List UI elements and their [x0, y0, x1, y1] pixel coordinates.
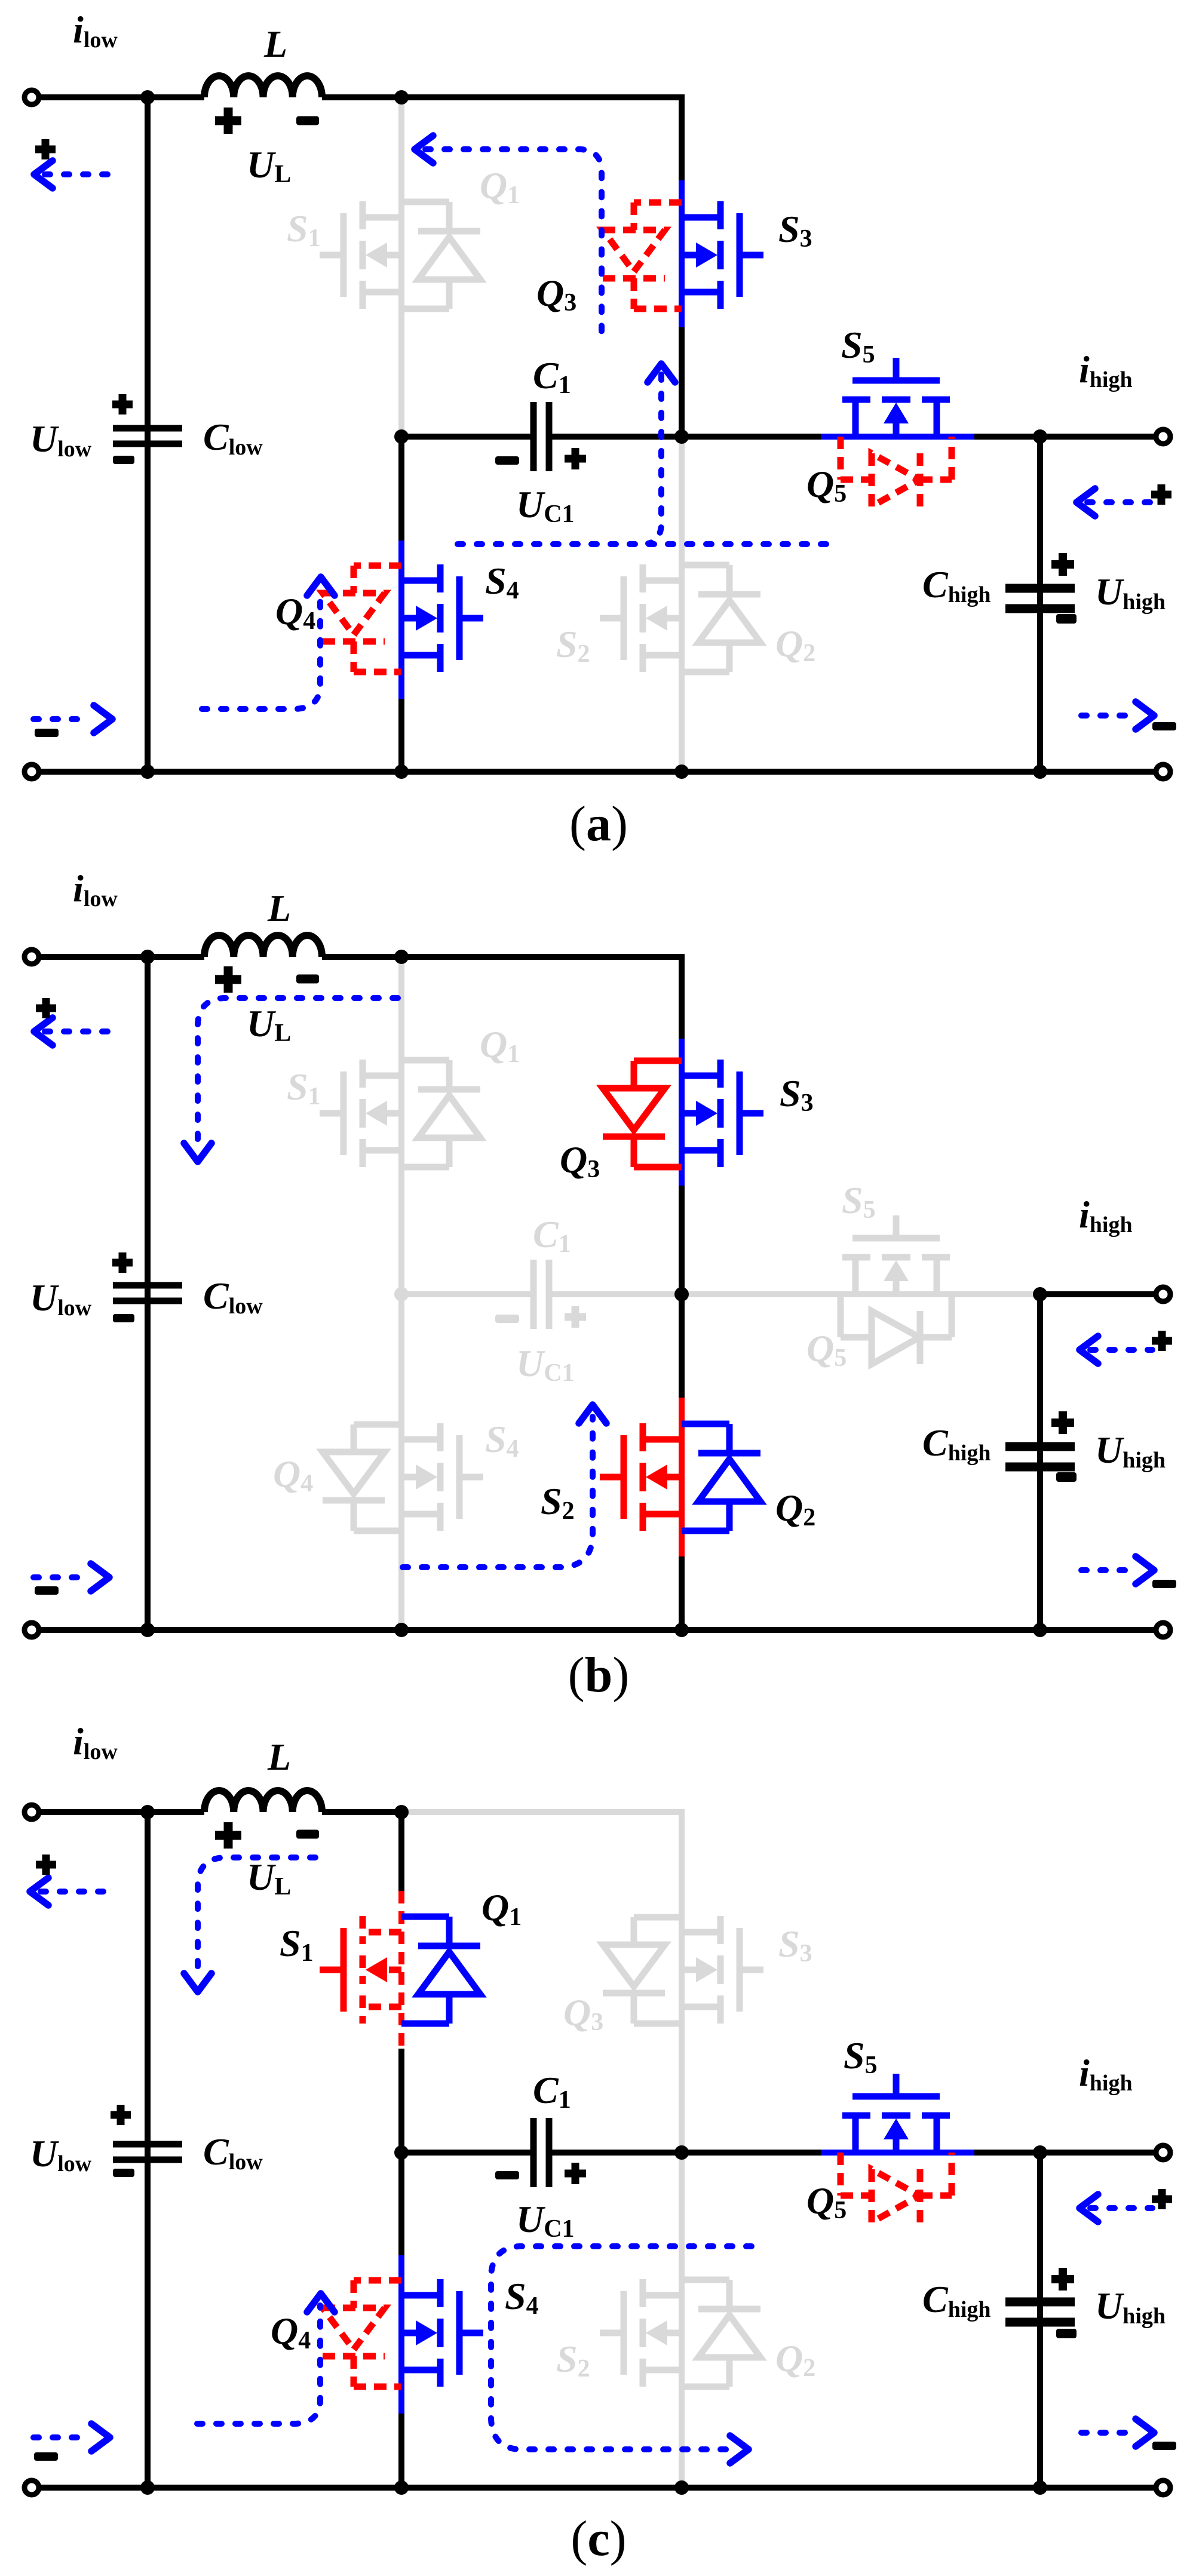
- bottom rail (b): [32, 1627, 1163, 1633]
- polarity minus bottom right (b): [1152, 1580, 1176, 1588]
- diode Q1 (c): [401, 1917, 480, 2024]
- current path arrow i_low (b): [34, 1018, 111, 1045]
- svg-text:(a): (a): [569, 796, 628, 852]
- left branch wire with C_low (c): [145, 1812, 151, 2488]
- transistor S2 (b): [600, 1423, 682, 1531]
- capacitor C_high (b): [1005, 1447, 1075, 1467]
- Clow polarity (b): [112, 1252, 133, 1273]
- wire S3 blue segment (a): [679, 180, 685, 327]
- inactive mid rail with C1 (b): [401, 1291, 530, 1297]
- branch S4 wire (a): [398, 437, 404, 541]
- current path from S3 top (a): [415, 136, 602, 342]
- current path arrow at high terminal (c): [1079, 2194, 1152, 2222]
- top rail from inductor to S1 node (c): [322, 1809, 404, 1815]
- transistor S1 (inactive, a): [320, 201, 401, 309]
- bottom right return arrow (c): [1081, 2419, 1154, 2446]
- inactive branch S1 wire (a): [398, 97, 404, 437]
- transistor S4 (a): [401, 564, 483, 672]
- diode Q2 (inactive, c): [682, 2280, 760, 2387]
- polarity minus bottom left (b): [35, 1586, 59, 1595]
- mid rail S5 blue segment (a): [821, 434, 974, 440]
- current path up to mid node (a): [648, 364, 675, 544]
- inductor L (b): [204, 935, 322, 957]
- polarity plus at high terminal (c): [1152, 2189, 1172, 2209]
- transistor S3 (a): [682, 201, 763, 309]
- bottom left return arrow (a): [33, 705, 112, 733]
- top rail left segment (b): [32, 954, 204, 960]
- mid rail S5 blue segment (c): [821, 2150, 974, 2156]
- transistor S4 (inactive, b): [401, 1423, 483, 1531]
- diode Q1 (inactive, b): [401, 1060, 480, 1167]
- transistor S2 (inactive, a): [600, 564, 682, 672]
- top rail right segment and S3 drop (b): [322, 957, 682, 1039]
- top rail left segment (a): [32, 94, 204, 100]
- diode Q4 (inactive, b): [323, 1424, 401, 1531]
- polarity plus at low terminal (a): [35, 139, 56, 159]
- transistor S5 (a): [842, 358, 950, 437]
- svg-text:L: L: [267, 887, 291, 929]
- transistor S4 (c): [401, 2279, 483, 2387]
- node junctions (b): [140, 950, 1047, 1637]
- polarity minus bottom right (c): [1152, 2442, 1176, 2450]
- current path from S4 loop (c): [491, 2246, 752, 2463]
- transistor S5 (inactive, b): [842, 1215, 950, 1294]
- svg-text:(c): (c): [571, 2511, 626, 2566]
- svg-text:(b): (b): [568, 1647, 630, 1703]
- Chigh polarity (a): [1051, 553, 1074, 576]
- capacitor C_low (c): [113, 2144, 182, 2160]
- capacitor C_high (a): [1005, 588, 1075, 609]
- Chigh polarity (c): [1051, 2268, 1074, 2291]
- branch S1 wire dashed red (c): [398, 1812, 404, 1891]
- current path from S4 (a): [202, 577, 335, 709]
- transistor S3 (b): [682, 1060, 763, 1167]
- inductor polarity marks (b): [215, 966, 241, 993]
- C1 polarity (b): [495, 1315, 519, 1323]
- wire S3 blue segment (b): [679, 1039, 685, 1186]
- inductor polarity marks (a): [215, 108, 241, 134]
- current path arrow at high terminal (b): [1079, 1336, 1152, 1364]
- terminals (b): [24, 950, 1170, 1637]
- diode Q5 (inactive, b): [841, 1294, 952, 1364]
- current path below S4 (c): [197, 2293, 335, 2424]
- polarity minus bottom right (a): [1152, 722, 1176, 730]
- capacitor C_high (c): [1005, 2302, 1075, 2322]
- inactive top rail segment to S3 (c): [401, 1812, 682, 2153]
- branch C_high wire (b): [1037, 1294, 1043, 1630]
- bottom left return arrow (c): [33, 2424, 110, 2451]
- inductor L (a): [204, 76, 322, 97]
- polarity minus bottom left (c): [34, 2452, 58, 2461]
- inactive branch S4 wire (b): [398, 1294, 404, 1630]
- Clow polarity (a): [112, 394, 133, 415]
- svg-text:L: L: [263, 23, 287, 65]
- wire S3 to mid node (b): [679, 1186, 685, 1294]
- diode Q4 (dashed, a): [323, 566, 401, 672]
- top rail right segment and S3 drop (a): [322, 97, 682, 180]
- capacitor C1 (inactive, b): [533, 1260, 549, 1329]
- transistor S2 (inactive, c): [600, 2279, 682, 2387]
- mid rail with C1 (a): [401, 434, 530, 440]
- bottom right return arrow (a): [1081, 702, 1154, 729]
- terminals (c): [24, 1805, 1170, 2495]
- transistor S5 (c): [842, 2074, 950, 2153]
- mid rail right segment (c): [974, 2150, 1163, 2156]
- transistor S1 (inactive, b): [320, 1060, 401, 1167]
- diode Q3 (inactive, c): [603, 1917, 682, 2024]
- bottom left return arrow (b): [33, 1564, 109, 1591]
- diode Q3 (b): [603, 1061, 682, 1167]
- bottom right return arrow (b): [1081, 1556, 1154, 1584]
- svg-text:L: L: [267, 1736, 291, 1778]
- C1 polarity (a): [495, 456, 519, 465]
- branch S4 wire (c): [398, 2153, 404, 2255]
- capacitor C_low (b): [113, 1285, 182, 1301]
- bottom rail (a): [32, 769, 1163, 775]
- polarity plus at high terminal (a): [1151, 484, 1171, 505]
- top rail left segment (c): [32, 1809, 204, 1815]
- current path arrow at high terminal (a): [1077, 489, 1154, 516]
- terminals (a): [24, 90, 1170, 779]
- node junctions (c): [140, 1805, 1047, 2495]
- node junctions (a): [140, 90, 1047, 779]
- C1 polarity (c): [495, 2171, 519, 2179]
- inactive branch S1 wire (b): [398, 957, 404, 1294]
- mid rail with C1 (c): [401, 2150, 530, 2156]
- polarity plus at high terminal (b): [1152, 1331, 1172, 1351]
- transistor S3 (inactive, c): [682, 1916, 763, 2024]
- current path through L loop (b): [184, 998, 398, 1162]
- polarity minus bottom left (a): [35, 729, 59, 737]
- polarity plus at low terminal (c): [36, 1855, 56, 1875]
- capacitor C1 (a): [533, 402, 549, 471]
- mid rail right active segment (b): [1040, 1291, 1163, 1297]
- transistor S1 (dashed, c): [320, 1916, 401, 2024]
- current path from S2 (b): [403, 1405, 606, 1567]
- capacitor C_low (a): [113, 428, 182, 444]
- inductor polarity marks (c): [215, 1822, 241, 1849]
- diode Q2 (inactive, a): [682, 565, 760, 672]
- inactive branch S2 wire (a): [679, 437, 685, 772]
- diode Q1 (inactive, a): [401, 202, 480, 309]
- current path through L loop (c): [184, 1857, 315, 1992]
- current path arrow i_low (c): [30, 1878, 106, 1905]
- inductor L (c): [204, 1791, 322, 1812]
- bottom rail (c): [32, 2485, 1163, 2491]
- Clow polarity (c): [111, 2105, 131, 2125]
- left branch wire with C_low (a): [145, 97, 151, 772]
- Chigh polarity (b): [1051, 1411, 1074, 1434]
- wire S3 to mid node (a): [679, 327, 685, 437]
- diode Q2 (b): [682, 1424, 760, 1531]
- branch C_high wire (a): [1037, 437, 1043, 772]
- diode Q5 (dashed, a): [841, 437, 952, 506]
- branch S2 wire (b): [679, 1294, 685, 1398]
- polarity plus at low terminal (b): [36, 998, 56, 1018]
- left branch wire with C_low (b): [145, 957, 151, 1630]
- mid rail right segment (a): [974, 434, 1163, 440]
- current path through C1 (a): [458, 541, 829, 547]
- current path arrow i_low (a): [34, 161, 111, 188]
- diode Q3 (dashed, a): [603, 202, 682, 309]
- capacitor C1 (c): [533, 2118, 549, 2187]
- branch C_high wire (c): [1037, 2153, 1043, 2488]
- diode Q5 (dashed, c): [841, 2153, 952, 2222]
- diode Q4 (dashed, c): [323, 2280, 401, 2387]
- inactive branch S2 wire (c): [679, 2153, 685, 2488]
